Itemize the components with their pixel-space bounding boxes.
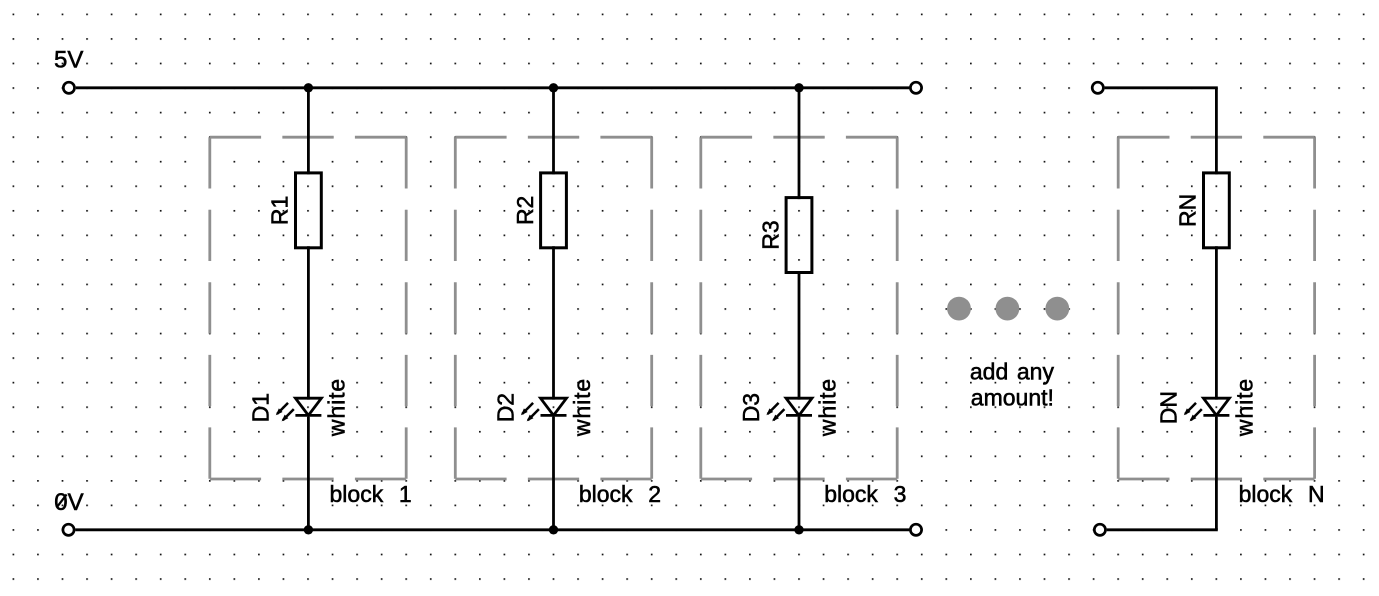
block 3 enclosure (dashed box) — [701, 137, 897, 479]
svg-text:5V: 5V — [54, 47, 83, 74]
ellipsis dot 3 — [1045, 297, 1069, 321]
svg-text:D1: D1 — [247, 393, 273, 422]
terminal: 0V rail left — [63, 524, 74, 535]
svg-text:block 1: block 1 — [330, 481, 412, 507]
light ray arrow 2 of D3 — [772, 409, 784, 421]
wire: 0V return from block N — [1107, 528, 1218, 531]
junction on 5V rail (block 3) — [794, 83, 803, 92]
svg-text:D2: D2 — [493, 393, 519, 422]
light ray arrow 1 of D3 — [766, 403, 778, 415]
annotation: add any amount! — [970, 359, 1055, 411]
terminal: 5V feed to block N — [1092, 82, 1103, 93]
svg-text:DN: DN — [1155, 391, 1181, 424]
LED D2 (triangle + cathode bar) — [541, 398, 567, 415]
light ray arrow 2 of D2 — [527, 409, 539, 421]
wire: D1 to 0V rail — [307, 417, 310, 531]
junction on 5V rail (block 1) — [304, 83, 313, 92]
wire: R3 to D3 — [798, 271, 801, 400]
svg-text:R2: R2 — [512, 196, 538, 225]
svg-text:white: white — [569, 378, 595, 437]
LED D3 (triangle + cathode bar) — [786, 398, 812, 415]
wire: 5V feed to block N — [1105, 86, 1218, 89]
ellipsis dot 2 — [996, 297, 1020, 321]
svg-text:white: white — [1232, 378, 1258, 437]
svg-text:RN: RN — [1175, 194, 1201, 227]
light ray arrow 1 of D1 — [276, 403, 288, 415]
block 2 enclosure (dashed box) — [455, 137, 651, 479]
light ray arrow 1 of DN — [1184, 403, 1196, 415]
slash of zero in 0V — [57, 494, 67, 507]
junction on 0V rail (block 3) — [794, 525, 803, 534]
wire: D3 to 0V rail — [798, 417, 801, 531]
LED DN (triangle + cathode bar) — [1203, 398, 1229, 415]
wire: RN to DN — [1215, 246, 1218, 399]
wire: 5V rail to R1 top — [307, 86, 310, 174]
svg-text:add any: add any — [970, 359, 1055, 385]
svg-text:white: white — [814, 378, 840, 437]
wire: 5V rail to R2 top — [552, 86, 555, 174]
svg-text:0V: 0V — [54, 489, 83, 516]
block 1 enclosure (dashed box) — [210, 137, 406, 479]
wire: 5V rail to R3 top — [798, 86, 801, 199]
light ray arrow 2 of D1 — [282, 409, 294, 421]
svg-text:R3: R3 — [757, 220, 783, 249]
svg-text:block N: block N — [1239, 481, 1325, 507]
terminal: 0V rail right — [910, 524, 921, 535]
block N enclosure (dashed box) — [1118, 137, 1314, 479]
wire: R1 to D1 — [307, 246, 310, 399]
junction on 0V rail (block 2) — [549, 525, 558, 534]
resistor R2 — [541, 173, 567, 248]
ellipsis dot 1 — [947, 297, 971, 321]
wire: DN to 0V rail — [1215, 417, 1218, 530]
resistor R3 — [786, 198, 812, 273]
wire: R2 to D2 — [552, 246, 555, 399]
light ray arrow 1 of D2 — [521, 403, 533, 415]
junction on 5V rail (block 2) — [549, 83, 558, 92]
svg-text:D3: D3 — [738, 393, 764, 422]
terminal: 5V rail right — [910, 82, 921, 93]
terminal: 5V rail left — [63, 82, 74, 93]
svg-text:amount!: amount! — [971, 384, 1054, 410]
wire: 0V rail — [75, 528, 909, 531]
junction on 0V rail (block 1) — [304, 525, 313, 534]
resistor RN — [1204, 173, 1230, 248]
LED D1 (triangle + cathode bar) — [295, 398, 321, 415]
resistor R1 — [296, 173, 322, 248]
svg-text:white: white — [324, 378, 350, 437]
svg-text:R1: R1 — [267, 196, 293, 225]
svg-text:block 2: block 2 — [579, 481, 661, 507]
terminal: 0V return from block N — [1094, 524, 1105, 535]
light ray arrow 2 of DN — [1190, 409, 1202, 421]
svg-text:block 3: block 3 — [824, 481, 906, 507]
wire: 5V rail — [76, 86, 910, 89]
wire: 5V rail to RN top — [1215, 88, 1218, 175]
wire: D2 to 0V rail — [552, 417, 555, 531]
